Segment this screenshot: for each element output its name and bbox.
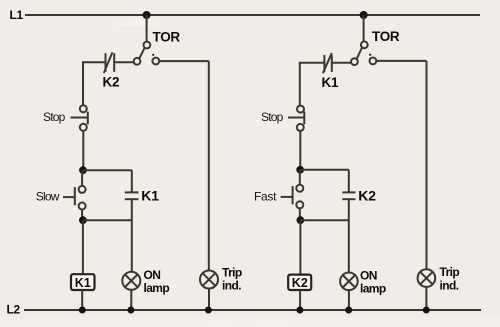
svg-text:ind.: ind. [440, 278, 459, 292]
svg-text:TOR: TOR [153, 30, 181, 45]
svg-text:K2: K2 [292, 276, 308, 290]
svg-text:TOR: TOR [372, 29, 400, 44]
svg-text:K1: K1 [322, 75, 339, 90]
svg-text:Stop: Stop [261, 110, 284, 124]
svg-text:Fast: Fast [254, 190, 277, 204]
svg-text:Stop: Stop [43, 110, 66, 124]
svg-text:K2: K2 [358, 187, 376, 203]
svg-text:K1: K1 [141, 187, 159, 203]
svg-text:L2: L2 [7, 303, 21, 317]
svg-text:Trip: Trip [440, 265, 460, 279]
svg-text:lamp: lamp [144, 281, 170, 295]
svg-text:K1: K1 [75, 276, 91, 290]
svg-text:K2: K2 [103, 75, 120, 90]
svg-text:L1: L1 [10, 8, 24, 22]
svg-text:ind.: ind. [222, 279, 241, 293]
svg-text:Trip: Trip [222, 265, 242, 279]
svg-text:ON: ON [144, 268, 161, 282]
svg-text:Slow: Slow [36, 190, 60, 204]
svg-text:lamp: lamp [360, 281, 386, 295]
